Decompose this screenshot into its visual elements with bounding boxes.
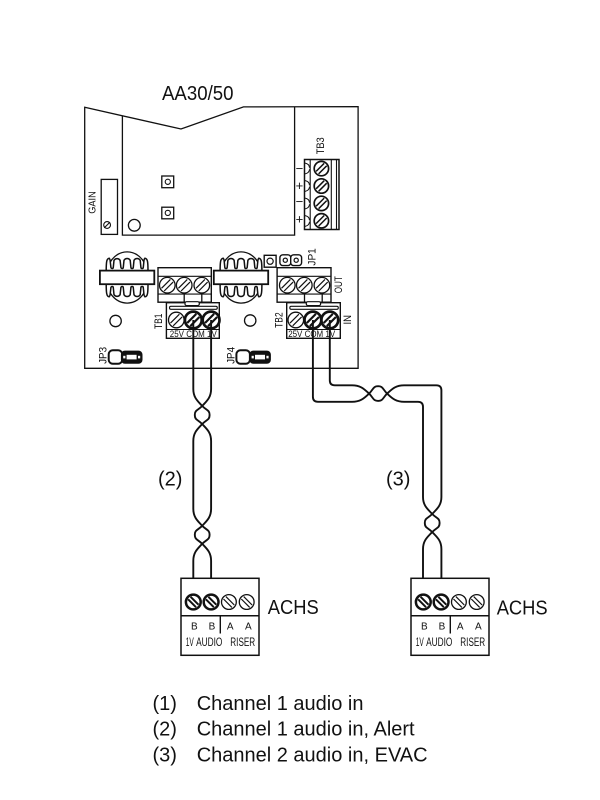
svg-text:TB3: TB3	[315, 137, 327, 154]
svg-text:1V: 1V	[416, 635, 424, 649]
svg-text:OUT: OUT	[333, 276, 345, 293]
jumper JP4	[236, 350, 250, 363]
svg-text:Channel 2 audio in, EVAC: Channel 2 audio in, EVAC	[197, 744, 428, 766]
svg-text:(2): (2)	[153, 719, 177, 741]
ACHS-2 screw A1	[452, 595, 467, 610]
TB1 upper screw 3	[194, 277, 210, 293]
TB1 upper screw 1	[160, 277, 176, 293]
TB1 screw 25V	[169, 312, 185, 328]
svg-text:B: B	[421, 622, 428, 633]
TB1 screw COM	[185, 312, 202, 329]
svg-text:A: A	[475, 622, 482, 633]
TB2 interconnect stubs	[304, 293, 306, 303]
svg-text:ACHS: ACHS	[497, 598, 548, 620]
terminal block TB3 body	[305, 160, 340, 230]
TB1 screw 1V	[203, 312, 220, 329]
svg-text:JP4: JP4	[225, 347, 237, 364]
transformer T2 core circle	[220, 252, 263, 303]
TB3 screw 1	[314, 161, 328, 175]
svg-text:(2): (2)	[158, 469, 182, 491]
TB1 output strip body	[158, 268, 211, 303]
ACHS-1 screw B1	[186, 595, 201, 610]
svg-text:B: B	[439, 622, 446, 633]
wire: TB2 1V to ACHS-2 terminal B (twisted pair outer conductor)	[330, 320, 442, 596]
TB1 upper screw 2	[176, 277, 192, 293]
potentiometer GAIN screw	[104, 222, 111, 229]
TB3 screw 3	[314, 196, 328, 210]
svg-text:1V: 1V	[186, 635, 194, 649]
svg-text:−: −	[296, 161, 304, 176]
wire: TB2 COM to ACHS-2 terminal B (twisted pair inner conductor)	[313, 320, 440, 596]
mounting hole H3	[245, 315, 256, 326]
svg-text:TB1: TB1	[153, 314, 165, 330]
amplifier module outline	[122, 107, 294, 236]
jumper JP3	[109, 350, 123, 363]
test point TP2	[162, 207, 174, 219]
AA30/50 board outline	[85, 107, 358, 369]
TB3 screw 2	[314, 179, 328, 193]
terminal block TB1 body	[166, 303, 219, 339]
TB2 upper screw 3	[314, 277, 330, 293]
TB2 screw 1V	[321, 312, 338, 329]
svg-text:A: A	[457, 622, 464, 633]
svg-text:B: B	[191, 622, 198, 633]
svg-text:+: +	[296, 211, 304, 226]
transformer T2 bottom winding	[220, 284, 262, 297]
TB2 upper screw 2	[297, 277, 313, 293]
svg-text:AA30/50: AA30/50	[162, 83, 234, 105]
TB1 interconnect block	[185, 302, 199, 306]
test point TP1	[162, 176, 174, 188]
svg-text:A: A	[245, 622, 252, 633]
TB2 interconnect block	[306, 302, 320, 306]
transformer T2 core bar	[214, 271, 268, 285]
TB2 upper screw 1	[280, 277, 296, 293]
svg-text:RISER: RISER	[460, 635, 485, 649]
svg-text:Channel 1 audio in: Channel 1 audio in	[197, 693, 364, 715]
mounting hole H1	[128, 219, 140, 231]
ACHS-1 screw A1	[222, 595, 237, 610]
ACHS-1 screw B2	[204, 595, 219, 610]
terminal block ACHS-2 body	[411, 578, 489, 655]
svg-text:−: −	[296, 194, 304, 209]
svg-text:(3): (3)	[153, 744, 177, 766]
svg-text:+: +	[296, 178, 304, 193]
potentiometer GAIN body	[101, 179, 117, 234]
transformer T1 core circle	[106, 252, 149, 303]
ACHS-2 screw B1	[416, 595, 431, 610]
svg-text:JP3: JP3	[98, 347, 110, 364]
jumper header JP1	[280, 255, 291, 266]
svg-text:AUDIO: AUDIO	[426, 635, 453, 649]
svg-text:B: B	[209, 622, 216, 633]
svg-text:ACHS: ACHS	[268, 597, 319, 619]
terminal block ACHS-1 body	[181, 578, 259, 655]
ACHS-1 screw A2	[239, 595, 254, 610]
transformer T1 top winding	[106, 258, 148, 271]
TB2 screw 25V	[288, 312, 304, 328]
transformer T1 core bar	[100, 271, 154, 285]
terminal block TB2 body	[287, 303, 341, 339]
TB2 screw COM	[305, 312, 322, 329]
TB2 output strip body	[277, 268, 331, 303]
wire: TB1 1V to ACHS-1 terminal B (twisted pair right conductor)	[195, 320, 211, 595]
svg-text:AUDIO: AUDIO	[196, 635, 223, 649]
ACHS-2 screw A2	[469, 595, 484, 610]
mounting hole H2	[110, 315, 121, 326]
svg-text:JP1: JP1	[306, 248, 318, 265]
wire: TB1 COM to ACHS-1 terminal B (twisted pair left conductor)	[193, 320, 209, 595]
transformer T1 bottom winding	[106, 284, 148, 297]
svg-text:TB2: TB2	[274, 312, 286, 328]
svg-text:GAIN: GAIN	[88, 191, 99, 214]
svg-text:(3): (3)	[386, 469, 410, 491]
test point TP3	[264, 255, 276, 267]
svg-text:(1): (1)	[153, 693, 177, 715]
TB3 screw 4	[314, 214, 328, 228]
svg-text:IN: IN	[342, 315, 354, 325]
svg-text:A: A	[227, 622, 234, 633]
ACHS-2 screw B2	[434, 595, 449, 610]
svg-text:RISER: RISER	[230, 635, 255, 649]
TB3 wire clamps	[305, 163, 310, 174]
transformer T2 top winding	[220, 258, 262, 271]
svg-text:Channel 1 audio in, Alert: Channel 1 audio in, Alert	[197, 719, 415, 741]
TB1 interconnect stubs	[183, 293, 185, 303]
